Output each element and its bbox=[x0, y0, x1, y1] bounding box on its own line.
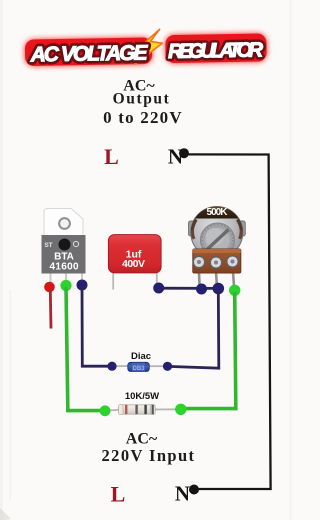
wire: green right vertical bbox=[181, 292, 236, 409]
svg-text:0 to 220V: 0 to 220V bbox=[103, 108, 183, 127]
node: pot right green dot bbox=[229, 285, 240, 296]
wire: red stub bbox=[49, 290, 53, 329]
node N (output) bbox=[168, 145, 189, 169]
label: AC~ Output 0 to 220V bbox=[103, 78, 183, 128]
wire: navy gate down + to diac bbox=[82, 287, 112, 366]
svg-text:500K: 500K bbox=[207, 207, 229, 218]
wire: navy right vertical to diac row bbox=[168, 290, 219, 368]
node: pot wiper navy dot bbox=[213, 283, 225, 295]
svg-text:DB3: DB3 bbox=[132, 366, 145, 372]
svg-text:Diac: Diac bbox=[131, 351, 151, 362]
node L (input) bbox=[111, 482, 126, 507]
svg-text:41600: 41600 bbox=[50, 262, 79, 273]
wire: N black loop right side bbox=[184, 154, 271, 489]
node: pot left navy dot bbox=[196, 284, 207, 295]
svg-text:REGULATOR: REGULATOR bbox=[168, 38, 264, 63]
svg-text:220V Input: 220V Input bbox=[102, 446, 196, 465]
node: resistor right green dot bbox=[175, 404, 186, 415]
node: triac gate navy dot bbox=[77, 280, 88, 291]
svg-text:Output: Output bbox=[113, 91, 171, 108]
title banner bbox=[25, 27, 267, 66]
svg-text:400V: 400V bbox=[122, 258, 145, 270]
svg-text:AC~: AC~ bbox=[126, 431, 158, 448]
node: diac left navy dot bbox=[107, 362, 116, 371]
resistor R1 10K/5W bbox=[107, 391, 178, 415]
potentiometer VR1 500K bbox=[189, 207, 246, 287]
node: cap right navy dot bbox=[153, 283, 164, 294]
wire: navy horizontal cap to pot bbox=[159, 287, 219, 290]
svg-text:L: L bbox=[104, 144, 119, 169]
node: triac MT1 green dot bbox=[60, 280, 71, 291]
label: AC~ 220V Input bbox=[102, 431, 196, 466]
svg-text:10K/5W: 10K/5W bbox=[125, 391, 159, 402]
node N (input) bbox=[175, 482, 199, 506]
svg-text:N: N bbox=[175, 482, 190, 506]
svg-text:L: L bbox=[111, 482, 126, 507]
svg-text:ST: ST bbox=[44, 242, 52, 249]
node: resistor left green dot bbox=[100, 405, 111, 416]
diac D1 DB3 bbox=[116, 351, 164, 372]
lightning bolt bbox=[134, 29, 163, 64]
svg-text:AC VOLTAGE: AC VOLTAGE bbox=[29, 41, 148, 66]
wire: green left vertical + bottom to resistor bbox=[66, 287, 105, 411]
triac Q1 BTA41600 bbox=[42, 209, 86, 284]
node: diac right navy dot bbox=[163, 362, 172, 371]
node: triac MT2 red dot bbox=[44, 282, 55, 293]
node L (output) bbox=[104, 144, 119, 169]
capacitor C1 1uf 400V bbox=[108, 235, 161, 290]
